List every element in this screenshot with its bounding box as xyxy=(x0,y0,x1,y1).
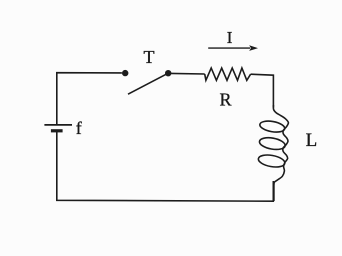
svg-text:f: f xyxy=(76,118,82,138)
svg-text:L: L xyxy=(306,130,318,151)
svg-text:I: I xyxy=(227,28,233,47)
svg-text:R: R xyxy=(219,90,231,110)
svg-text:T: T xyxy=(144,47,155,67)
